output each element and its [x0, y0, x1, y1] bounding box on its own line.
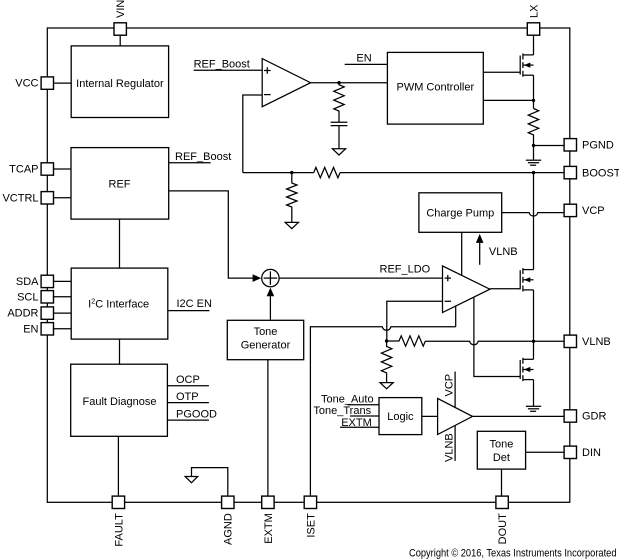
- svg-text:ISET: ISET: [305, 513, 317, 538]
- pin LX: [527, 23, 539, 35]
- node feedback junction: [385, 339, 388, 342]
- pin DIN: [564, 446, 576, 458]
- svg-text:VCTRL: VCTRL: [2, 192, 38, 204]
- svg-text:REF_Boost: REF_Boost: [194, 59, 250, 71]
- svg-text:VCP: VCP: [582, 205, 605, 217]
- svg-text:VLNB: VLNB: [444, 433, 456, 462]
- wire Charge Pump supply to U2: [461, 232, 463, 275]
- ground open triangle at AGND: [185, 477, 198, 483]
- resistor R6 vertical: [381, 341, 391, 383]
- svg-text:Copyright © 2016, Texas Instru: Copyright © 2016, Texas Instruments Inco…: [409, 547, 617, 559]
- wire TCAP to REF: [54, 168, 72, 170]
- svg-text:VLNB: VLNB: [582, 336, 611, 348]
- svg-text:Tone: Tone: [489, 438, 513, 450]
- node U1 output junction: [337, 81, 340, 84]
- pin BOOST: [564, 166, 576, 178]
- svg-text:DOUT: DOUT: [497, 513, 509, 544]
- wire ISET to op-amp with hop: [310, 327, 455, 330]
- node Q1 source junction: [532, 99, 535, 102]
- svg-text:Tone_Auto: Tone_Auto: [321, 394, 374, 406]
- wire Tone Generator to summing junction: [269, 296, 271, 321]
- chip boundary: [47, 28, 570, 502]
- node BOOST junction: [532, 171, 535, 174]
- pin VCP: [564, 204, 576, 216]
- svg-text:Tone_Trans: Tone_Trans: [313, 405, 371, 417]
- wire Tone Det to DIN pin: [526, 451, 565, 453]
- arrow VLNB into Charge Pump: [476, 234, 484, 265]
- transistor Q2: [520, 268, 533, 291]
- svg-text:FAULT: FAULT: [113, 513, 125, 547]
- svg-text:EN: EN: [356, 52, 371, 64]
- transistor Q1: [520, 53, 533, 76]
- transistor Q3: [520, 358, 533, 381]
- svg-text:Fault Diagnose: Fault Diagnose: [83, 396, 157, 408]
- pin ADDR: [41, 307, 53, 319]
- ground G1: [526, 146, 541, 166]
- wire VCP supply to buffer: [454, 372, 456, 408]
- wire Tone_Auto into Logic: [348, 404, 380, 406]
- wire REF_Boost into U1 plus input: [194, 69, 263, 71]
- svg-text:Charge Pump: Charge Pump: [426, 207, 494, 219]
- pin DOUT: [496, 496, 508, 508]
- wire PWM sense to Q1 source node: [483, 99, 533, 101]
- wire buffer to GDR pin: [473, 415, 565, 417]
- wire EXTM into Logic: [340, 426, 379, 428]
- svg-text:VCP: VCP: [444, 374, 456, 397]
- wire SCL to I2C: [54, 296, 72, 298]
- wire PGND node to PGND pin: [534, 145, 565, 147]
- wire ISET pin riser: [309, 326, 311, 496]
- pin EN: [41, 323, 53, 335]
- wire BOOST net: [243, 172, 314, 174]
- svg-text:EN: EN: [23, 323, 38, 335]
- wire OCP stub: [167, 385, 209, 387]
- wire VCTRL to REF: [54, 197, 72, 199]
- summing junction: [262, 269, 279, 286]
- node PGND junction: [532, 144, 535, 147]
- wire Charge Pump VCP output with hop: [502, 213, 564, 216]
- wire I2C Interface to Fault Diagnose: [119, 339, 121, 364]
- pin ISET: [304, 496, 316, 508]
- svg-text:BOOST: BOOST: [582, 167, 619, 179]
- svg-text:Det: Det: [493, 452, 510, 464]
- svg-text:EXTM: EXTM: [263, 513, 275, 544]
- wire VIN stub: [119, 35, 121, 46]
- svg-text:DIN: DIN: [582, 447, 601, 459]
- block Fault Diagnose: [71, 364, 168, 436]
- resistor R3 vertical: [287, 173, 297, 223]
- pin PGND: [564, 139, 576, 151]
- svg-text:I2C EN: I2C EN: [177, 298, 213, 310]
- wire summing junction to op-amp U2: [279, 277, 442, 279]
- node VLNB junction: [532, 340, 535, 343]
- wire EN to I2C: [54, 328, 72, 330]
- node R3 junction: [290, 171, 293, 174]
- wire ADDR to I2C: [54, 312, 72, 314]
- resistor R4 vertical: [528, 109, 538, 146]
- wire Tone Generator to EXTM pin: [267, 360, 269, 496]
- op-amp U1 comparator: [262, 59, 310, 107]
- net REF_Boost stub from REF: [169, 162, 211, 164]
- wire REF output to summing node: [169, 191, 254, 278]
- svg-text:LX: LX: [528, 4, 540, 18]
- ground open triangle under R6: [380, 383, 393, 389]
- svg-text:GDR: GDR: [582, 411, 607, 423]
- pin VCTRL: [41, 192, 53, 204]
- arrowhead into summing junction: [253, 274, 262, 282]
- wire BOOST node down to Q2 drain: [533, 173, 535, 270]
- block REF: [71, 148, 169, 220]
- block I2C Interface: [71, 268, 168, 339]
- svg-text:AGND: AGND: [223, 513, 235, 545]
- wire OTP stub: [167, 402, 209, 404]
- wire VLNB node to Q3 drain: [533, 341, 535, 359]
- wire riser to op-amp U2 lower edge: [455, 306, 457, 327]
- wire U1 output to PWM Controller: [311, 82, 388, 84]
- pin AGND: [222, 496, 234, 508]
- wire R5 to VLNB pin with hop: [425, 341, 564, 344]
- wire VCC to Internal Regulator: [54, 82, 72, 84]
- resistor R1 vertical: [334, 83, 344, 123]
- wire Fault Diagnose to FAULT pin: [117, 436, 119, 496]
- wire SDA to I2C: [54, 280, 72, 282]
- resistor R2 horizontal: [314, 167, 340, 177]
- wire U2 lower edge to Q3 gate: [474, 297, 520, 376]
- buffer U3: [438, 398, 473, 434]
- wire R2 to BOOST pin: [340, 172, 564, 174]
- wire Logic to buffer U3: [422, 415, 438, 417]
- svg-text:SDA: SDA: [16, 276, 39, 288]
- wire Tone_Trans into Logic: [350, 415, 379, 417]
- op-amp U2 REF_LDO: [443, 266, 490, 313]
- pin EXTM: [262, 496, 274, 508]
- svg-text:PWM Controller: PWM Controller: [396, 82, 474, 94]
- ground open triangle under C1: [332, 149, 345, 155]
- svg-text:I2C Interface: I2C Interface: [88, 296, 149, 310]
- resistor R5 horizontal: [387, 336, 426, 346]
- wire VLNB supply to buffer: [454, 425, 456, 461]
- block Charge Pump: [419, 193, 502, 233]
- wire PWM to Q1 gate: [483, 71, 520, 73]
- wire Q1 source to resistor R4: [533, 75, 535, 108]
- pin VLNB: [564, 335, 576, 347]
- svg-text:Logic: Logic: [387, 411, 414, 423]
- svg-text:Generator: Generator: [241, 340, 291, 352]
- wire Tone Det to DOUT pin: [501, 469, 503, 496]
- pin SCL: [41, 291, 53, 303]
- svg-text:ADDR: ADDR: [7, 308, 38, 320]
- capacitor C1: [331, 122, 348, 149]
- block Internal Regulator: [71, 46, 168, 118]
- wire LX pin to Q1 drain: [533, 35, 535, 55]
- svg-text:SCL: SCL: [17, 291, 38, 303]
- svg-text:REF_Boost: REF_Boost: [175, 151, 231, 163]
- svg-text:PGND: PGND: [582, 140, 614, 152]
- svg-text:VCC: VCC: [15, 78, 38, 90]
- wire I2C EN stub: [168, 310, 210, 312]
- pin VCC: [41, 77, 53, 89]
- svg-text:OCP: OCP: [176, 374, 200, 386]
- wire Q3 source to ground: [533, 380, 535, 407]
- ground open triangle under R3: [285, 222, 298, 228]
- ground G2: [526, 406, 541, 411]
- wire op-amp U2 inverting input: [387, 301, 443, 341]
- wire REF to I2C Interface: [119, 219, 121, 268]
- wire Q2 source to VLNB node: [533, 290, 535, 341]
- pin VIN: [114, 23, 126, 35]
- arrowhead Tone Generator to summing junction: [267, 288, 275, 297]
- wire U1 minus feedback: [243, 95, 262, 173]
- pin GDR: [564, 410, 576, 422]
- svg-text:Internal Regulator: Internal Regulator: [76, 78, 164, 90]
- block Tone Det: [477, 431, 525, 469]
- pin FAULT: [112, 496, 124, 508]
- wire AGND hook: [192, 468, 228, 497]
- svg-text:TCAP: TCAP: [9, 164, 38, 176]
- block PWM Controller: [387, 52, 483, 124]
- svg-text:REF: REF: [109, 179, 131, 191]
- wire op-amp U2 output to Q2 gate: [490, 288, 520, 290]
- svg-text:Tone: Tone: [254, 326, 278, 338]
- wire PGOOD stub: [167, 419, 209, 421]
- pin TCAP: [41, 163, 53, 175]
- pin SDA: [41, 275, 53, 287]
- wire EN into PWM Controller: [345, 63, 388, 65]
- svg-text:VLNB: VLNB: [489, 246, 518, 258]
- block Tone Generator: [227, 320, 303, 359]
- svg-text:PGOOD: PGOOD: [176, 409, 217, 421]
- svg-text:OTP: OTP: [176, 391, 199, 403]
- block Logic: [379, 398, 422, 435]
- svg-text:REF_LDO: REF_LDO: [380, 264, 431, 276]
- svg-text:VIN: VIN: [115, 0, 127, 18]
